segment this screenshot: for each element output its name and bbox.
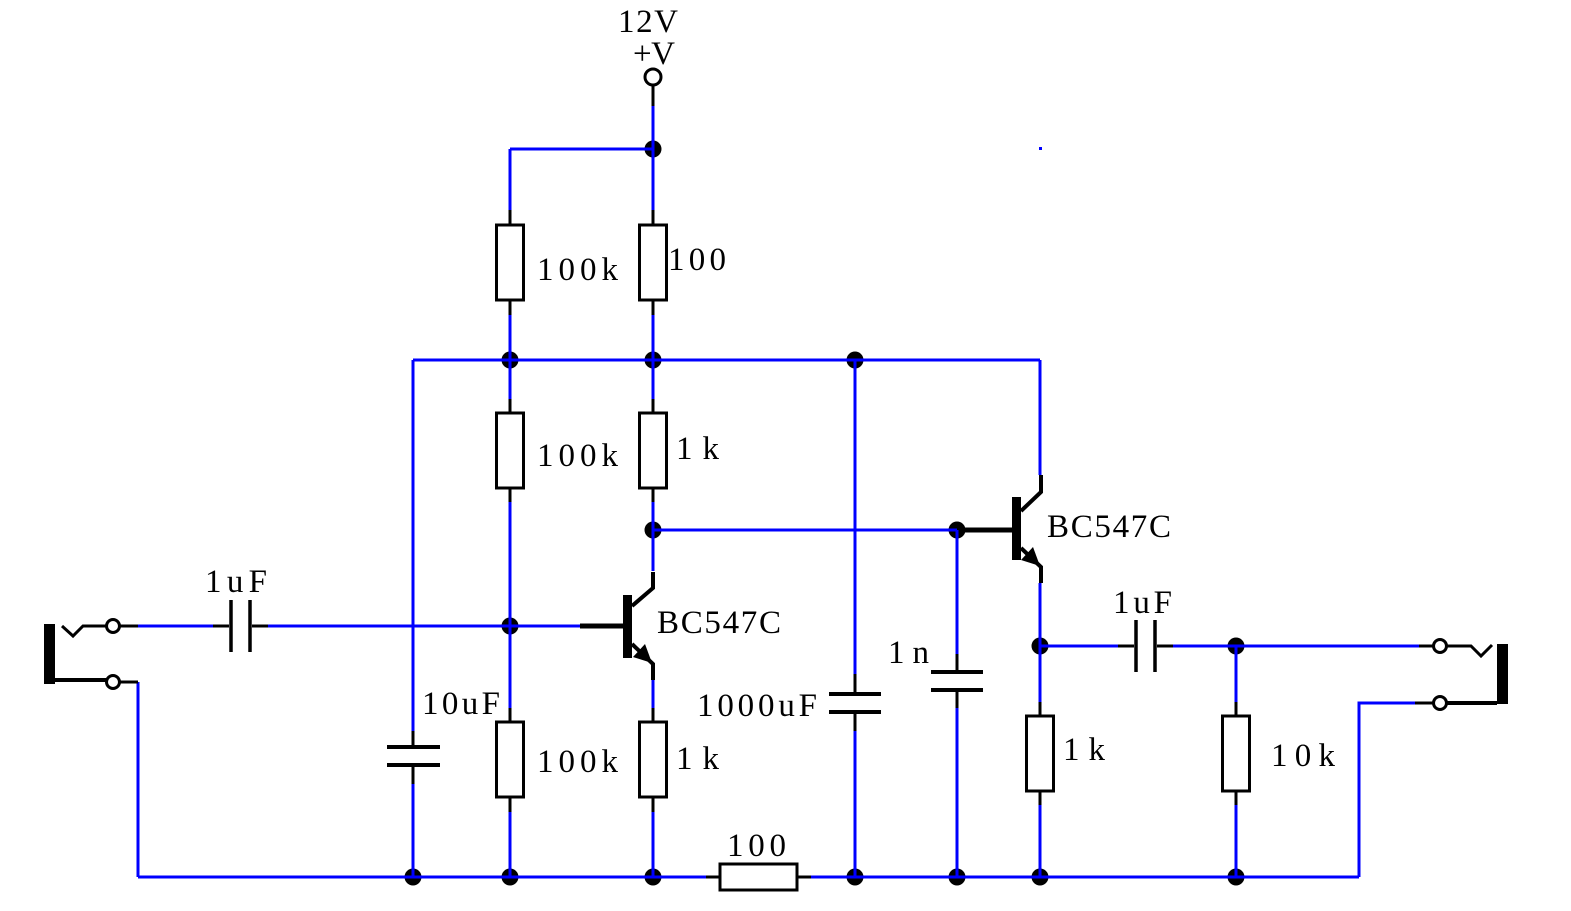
svg-text:1uF: 1uF bbox=[1113, 585, 1172, 621]
resistor R 1k Q1 emitter bbox=[640, 722, 667, 797]
svg-text:+V: +V bbox=[633, 36, 675, 72]
wire: R1 bottom to rail2 bbox=[509, 315, 512, 360]
capacitor C 1uF input bbox=[231, 600, 250, 652]
stray blue mark bbox=[1039, 147, 1042, 150]
node: ground 1000uF junction bbox=[847, 869, 864, 886]
wire: R2 bottom to base node to R5 bbox=[509, 502, 512, 708]
wire: input tip to 1uF bbox=[138, 625, 213, 628]
wire: +V terminal lead bbox=[652, 86, 655, 106]
node: Q2 base junction bbox=[949, 522, 966, 539]
wire: Q2 1k leads bbox=[1039, 702, 1042, 716]
svg-text:10uF: 10uF bbox=[422, 686, 500, 722]
node: ground 1k junction bbox=[645, 869, 662, 886]
resistor R 100k bottom bbox=[497, 722, 524, 797]
wire: +V drop bbox=[652, 106, 655, 210]
wire: 10k top lead bbox=[1235, 646, 1238, 702]
svg-text:BC547C: BC547C bbox=[1047, 509, 1171, 545]
wire: top rail y=149 bbox=[510, 148, 653, 151]
resistor R 1k mid bbox=[640, 413, 667, 488]
node: ground 1n junction bbox=[949, 869, 966, 886]
blue wires bbox=[138, 106, 1419, 877]
transistor Q2 BC547C bbox=[961, 475, 1041, 583]
power terminal +V bbox=[645, 69, 661, 85]
wire: 10uF column bbox=[412, 360, 415, 731]
node: Q1 collector junction bbox=[645, 522, 662, 539]
node: ground Q2-1k junction bbox=[1032, 869, 1049, 886]
node: rail2 left junction bbox=[502, 352, 519, 369]
wire: R2 leads bbox=[509, 399, 512, 413]
wire: emitter node to 1k bbox=[1039, 646, 1042, 702]
capacitor C 10uF bbox=[387, 747, 440, 765]
wire: output tip lead bbox=[1419, 645, 1433, 648]
svg-text:10k: 10k bbox=[1271, 738, 1336, 774]
node: rail2 1000uF junction bbox=[847, 352, 864, 369]
capacitor C 1n bbox=[931, 672, 983, 690]
wire: R3 1k top lead bbox=[652, 360, 655, 399]
resistor R 1k Q2 emitter bbox=[1027, 716, 1054, 791]
output jack J2 bbox=[1434, 640, 1509, 710]
resistor R 100k mid bbox=[497, 413, 524, 488]
wire: 1n to ground bbox=[956, 708, 959, 877]
wire: 1000uF leads bbox=[854, 674, 857, 694]
black component leads bbox=[120, 86, 1433, 877]
wire: R2 top lead bbox=[509, 360, 512, 399]
wire: R3 bottom to collector node bbox=[652, 502, 655, 530]
wire: Q2 1k to ground bbox=[1039, 805, 1042, 877]
node: +V rail junction bbox=[645, 141, 662, 158]
node: ground 100k junction bbox=[502, 869, 519, 886]
wire: 1n column bbox=[956, 530, 959, 655]
resistor R 100k top bbox=[497, 225, 524, 300]
wire: output 1uF leads bbox=[1118, 645, 1134, 648]
junction dots (drawn under wires) bbox=[405, 141, 1245, 886]
resistor R 10k bbox=[1223, 716, 1250, 791]
node: output RC junction bbox=[1228, 638, 1245, 655]
wire: 1000uF column bbox=[854, 360, 857, 674]
svg-text:BC547C: BC547C bbox=[657, 605, 781, 641]
wire: rail2 y=360 bbox=[413, 359, 1040, 362]
wire: input 1uF leads bbox=[213, 625, 229, 628]
resistor R 100 ground bbox=[720, 864, 797, 890]
wire: collector node down bbox=[652, 530, 655, 571]
wire: 10uF leads bbox=[412, 731, 415, 747]
wire: 1uF to Q1 base bbox=[268, 625, 580, 628]
svg-text:12V: 12V bbox=[618, 4, 678, 40]
resistor R 100 top bbox=[640, 225, 667, 300]
wire: collector node to Q2 base bbox=[653, 529, 957, 532]
wire: R3 leads bbox=[652, 399, 655, 413]
transistor Q1 BC547C bbox=[580, 572, 653, 680]
wire: Q2 collector riser bbox=[1039, 360, 1042, 475]
wire: emitter node to 1uF out bbox=[1040, 645, 1118, 648]
wire: R5 to ground bbox=[509, 812, 512, 877]
wire: input sleeve drop bbox=[137, 682, 140, 877]
node: ground 10uF junction bbox=[405, 869, 422, 886]
wire: 1n leads bbox=[956, 654, 959, 672]
wire: 10uF to ground bbox=[412, 784, 415, 877]
wire: left 100k column upper bbox=[509, 149, 512, 210]
wire: R5 leads bbox=[509, 708, 512, 722]
svg-text:100: 100 bbox=[668, 242, 726, 278]
wire: output sleeve lead bbox=[1415, 702, 1433, 705]
wire: R100 bottom leads bbox=[706, 876, 720, 879]
wire: R4 leads bbox=[652, 708, 655, 722]
wire: 10k to ground bbox=[1235, 805, 1238, 877]
svg-text:1uF: 1uF bbox=[205, 564, 267, 600]
wire: R1 leads bbox=[509, 210, 512, 225]
capacitor C 1uF output bbox=[1136, 620, 1155, 672]
input jack J1 bbox=[44, 620, 120, 689]
wire: Q1 emitter down bbox=[652, 680, 655, 708]
capacitor C 1000uF bbox=[829, 694, 881, 712]
wire: input sleeve lead bbox=[120, 681, 138, 684]
wire: ground rail bbox=[138, 876, 1359, 879]
wire: output sleeve return bbox=[1359, 703, 1415, 877]
wire: 1uF out to RC node bbox=[1173, 645, 1236, 648]
wire: 10k leads bbox=[1235, 702, 1238, 716]
svg-text:100: 100 bbox=[727, 828, 786, 864]
node: Q1 base junction bbox=[502, 618, 519, 635]
wire: 1000uF to ground bbox=[854, 731, 857, 877]
wire: Q2 emitter down bbox=[1039, 583, 1042, 646]
node: Q2 emitter junction bbox=[1032, 638, 1049, 655]
node: ground 10k junction bbox=[1228, 869, 1245, 886]
wire: R100 bottom to rail2 bbox=[652, 315, 655, 360]
wire: R4 1k to ground bbox=[652, 812, 655, 877]
wire: R100 leads bbox=[652, 210, 655, 225]
wire: output tip wire bbox=[1236, 645, 1419, 648]
wire: input tip lead bbox=[120, 625, 138, 628]
node: rail2 mid junction bbox=[645, 352, 662, 369]
